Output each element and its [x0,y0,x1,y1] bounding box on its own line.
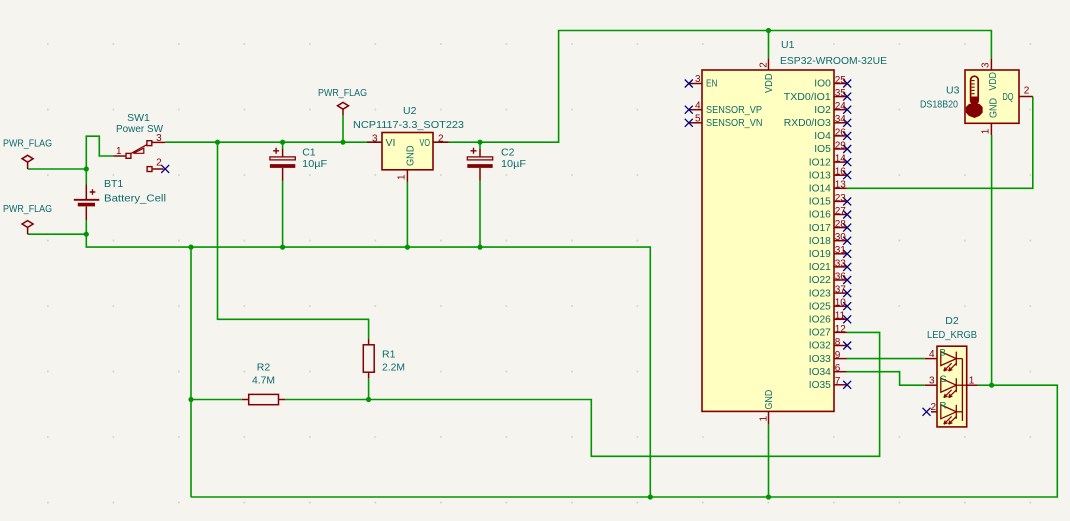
wire flag2 to battery- [28,233,87,235]
U1 pin 9 (IO33) [834,358,847,360]
U1 pin 34 (RXD0/IO3) [834,122,847,124]
wire IO33 to D2 pin4 [847,358,925,360]
svg-text:29: 29 [835,140,847,151]
U1 pin 30 (IO18) [834,240,847,242]
U1 pin 12 (IO27) [834,331,847,333]
U1 pin 3 (EN) [690,83,703,85]
junction VBAT/R1 tap [215,140,220,145]
svg-text:IO18: IO18 [809,236,831,247]
svg-text:VI: VI [386,138,396,149]
svg-text:6: 6 [835,363,841,374]
svg-text:2: 2 [156,158,162,169]
svg-text:IO15: IO15 [809,197,831,208]
wire flag1 to battery+ [28,168,87,170]
svg-text:1: 1 [116,146,122,157]
svg-text:EN: EN [706,79,718,90]
wire bottom GND rail [191,385,1057,497]
junction C2 GND [477,245,482,250]
svg-text:PWR_FLAG: PWR_FLAG [3,203,52,215]
no-connect X U1 IO16 [843,211,851,219]
U1 pin 4 (SENSOR_VP) [690,109,703,111]
D2 LED element B [941,352,963,371]
svg-text:IO27: IO27 [809,328,831,339]
svg-text:10: 10 [835,298,847,309]
svg-text:IO13: IO13 [809,170,831,181]
svg-text:IO14: IO14 [809,184,831,195]
svg-text:4: 4 [695,100,701,111]
junction flag3 [340,140,345,145]
wire VBAT main [165,31,991,143]
capacitor C2 [467,148,492,181]
U1 pin 16 (IO13) [834,174,847,176]
junction C2 top [477,140,482,145]
svg-text:IO22: IO22 [809,275,831,286]
U3 thermometer icon [967,76,982,117]
U1 pin 28 (IO17) [834,227,847,229]
wire VDD drop to U1 [768,31,770,59]
U2 pin 2 (VO) [433,141,449,143]
junction battery+ node [84,166,89,171]
svg-text:23: 23 [835,193,847,204]
wire flag3 stem [342,115,344,142]
no-connect X D2 pin 2 [923,408,931,416]
svg-text:NCP1117-3.3_SOT223: NCP1117-3.3_SOT223 [353,119,464,131]
junction D2/U3 GND node [989,383,994,388]
mcu U1 ESP32 body [702,70,834,411]
junction C1 top [280,140,285,145]
resistor R2 [242,394,285,404]
U1 pin 5 (SENSOR_VN) [690,122,703,124]
U2 pin 3 (VI) [367,141,382,143]
svg-text:10µF: 10µF [501,158,526,170]
svg-text:C1: C1 [302,146,316,158]
U3 pin 2 (DQ) [1019,96,1033,98]
sensor U3 DS18B20 body [965,70,1019,123]
wire C1 top [282,142,284,149]
svg-text:GND: GND [764,390,775,410]
wire U1 GND drop [768,424,770,497]
led D2 body [937,346,967,427]
no-connect X U1 TXD0/IO1 [843,93,851,101]
svg-text:2: 2 [1024,85,1030,96]
wire left GND drop [190,247,192,497]
U1 pin 11 (IO26) [834,318,847,320]
svg-text:3: 3 [372,133,378,144]
D2 LED element R [941,405,963,424]
D2 pin 1 [967,384,978,386]
wire VBAT to R1 [218,142,369,338]
U1 pin 35 (TXD0/IO1) [834,96,847,98]
svg-text:1: 1 [759,416,770,422]
U1 pin 2 (VDD top) [768,58,770,70]
U1 pin 37 (IO23) [834,292,847,294]
svg-text:12: 12 [835,324,847,335]
junction battery- node [84,232,89,237]
no-connect X U1 IO35 [843,381,851,389]
U1 pin 24 (IO2) [834,109,847,111]
svg-text:R1: R1 [382,349,396,361]
no-connect X U1 IO13 [843,171,851,179]
svg-text:36: 36 [835,271,847,282]
U1 pin 14 (IO12) [834,161,847,163]
wire C1 bottom [282,181,284,248]
regulator U2 body [382,133,433,170]
wire U3 GND drop [991,135,993,385]
svg-text:37: 37 [835,285,847,296]
svg-text:Power SW: Power SW [116,123,163,135]
svg-text:IO0: IO0 [814,79,831,90]
wire battery- / GND rail [86,220,650,497]
svg-text:16: 16 [835,167,847,178]
svg-text:VO: VO [420,138,431,149]
D2 pin 3 [925,384,937,386]
svg-text:GND: GND [406,146,417,167]
junction R1/R2 node [366,397,371,402]
svg-text:IO34: IO34 [809,367,831,378]
svg-text:27: 27 [835,206,847,217]
svg-text:VDD: VDD [764,74,775,94]
no-connect X SW1 pin 2 [161,165,169,173]
wire C2 bottom [479,181,481,248]
svg-text:3: 3 [929,375,935,386]
no-connect X U1 IO4 [843,132,851,140]
junction GND bottom 2 [766,494,771,499]
no-connect X U1 SENSOR_VN [685,119,693,127]
no-connect X U1 IO21 [843,263,851,271]
svg-text:IO12: IO12 [809,157,831,168]
svg-text:24: 24 [835,101,847,112]
wire U2 GND [406,182,408,248]
svg-text:5: 5 [695,113,701,124]
power flag PWR_FLAG #3 symbol [338,102,349,115]
U1 pin 25 (IO0) [834,83,847,85]
svg-text:31: 31 [835,245,847,256]
svg-text:SENSOR_VP: SENSOR_VP [706,105,762,116]
U1 pin 33 (IO21) [834,266,847,268]
U1 pin 23 (IO15) [834,200,847,202]
no-connect X U1 IO17 [843,224,851,232]
battery BT1 [74,185,100,221]
no-connect X U1 IO22 [843,276,851,284]
svg-text:IO23: IO23 [809,288,831,299]
U1 pin 31 (IO19) [834,253,847,255]
no-connect X U1 IO5 [843,145,851,153]
svg-text:PWR_FLAG: PWR_FLAG [318,87,367,99]
svg-text:30: 30 [835,232,847,243]
switch SW1 [113,141,165,172]
svg-text:8: 8 [835,337,841,348]
svg-text:U2: U2 [403,105,417,117]
svg-text:4: 4 [929,349,935,360]
svg-text:26: 26 [835,127,847,138]
wire D2 pin1 to node [978,384,992,386]
svg-text:LED_KRGB: LED_KRGB [927,329,977,341]
svg-text:C2: C2 [501,146,515,158]
svg-text:25: 25 [835,75,847,86]
wire R1 bottom [368,378,370,399]
U2 pin 1 (GND) [406,170,408,182]
svg-text:SENSOR_VN: SENSOR_VN [706,118,763,129]
U3 pin 3 (VDD top) [990,58,992,70]
junction C1 GND [280,245,285,250]
resistor R1 [363,339,374,379]
no-connect X U1 IO23 [843,289,851,297]
svg-text:BT1: BT1 [104,178,123,190]
no-connect X U1 RXD0/IO3 [843,119,851,127]
svg-text:3: 3 [981,62,992,68]
wire IO34 to D2 pin3 [847,372,925,386]
no-connect X U1 EN [685,80,693,88]
svg-text:1: 1 [397,174,408,180]
svg-text:35: 35 [835,88,847,99]
no-connect X U1 IO0 [843,80,851,88]
no-connect X U1 IO18 [843,237,851,245]
svg-text:3: 3 [695,74,701,85]
U1 pin 13 (IO14) [834,187,847,189]
no-connect X U1 IO26 [843,315,851,323]
U3 pin 1 (GND bottom) [990,123,992,135]
no-connect X U1 IO32 [843,342,851,350]
svg-text:PWR_FLAG: PWR_FLAG [3,138,52,150]
svg-text:GND: GND [989,98,1000,118]
svg-text:IO25: IO25 [809,301,831,312]
svg-text:1: 1 [981,128,992,134]
wire divider to IO27 [369,332,880,456]
svg-text:RXD0/IO3: RXD0/IO3 [784,118,831,129]
no-connect X U1 IO15 [843,197,851,205]
svg-text:2: 2 [759,62,770,68]
capacitor C1 [270,148,295,181]
U1 pin 26 (IO4) [834,135,847,137]
U1 pin 10 (IO25) [834,305,847,307]
svg-text:28: 28 [835,219,847,230]
D2 pin 4 [925,358,937,360]
svg-text:IO5: IO5 [814,144,831,155]
svg-text:R: R [940,401,947,412]
svg-text:7: 7 [835,376,841,387]
svg-text:2.2M: 2.2M [382,362,405,374]
svg-text:R2: R2 [257,362,271,374]
svg-text:D2: D2 [945,315,959,327]
wire R2 to R1 node [285,399,368,401]
svg-text:Battery_Cell: Battery_Cell [104,193,166,205]
no-connect X U1 IO19 [843,250,851,258]
power flag PWR_FLAG #1 symbol [22,155,33,169]
wire C2 top [479,142,481,149]
svg-text:14: 14 [835,154,847,165]
U1 pin 7 (IO35) [834,384,847,386]
junction GND bottom 1 [648,494,653,499]
U1 pin 6 (IO34) [834,371,847,373]
svg-text:IO32: IO32 [809,341,831,352]
junction U1 VDD [766,28,771,33]
svg-text:U3: U3 [946,84,960,96]
no-connect X U1 SENSOR_VP [685,106,693,114]
svg-text:IO17: IO17 [809,223,831,234]
wire DQ to IO14 [847,97,1033,189]
wire battery top [85,169,87,185]
svg-text:IO16: IO16 [809,210,831,221]
no-connect X U1 IO2 [843,106,851,114]
svg-text:IO4: IO4 [814,131,831,142]
svg-text:G: G [940,374,947,385]
svg-text:U1: U1 [781,39,795,51]
svg-text:B: B [940,347,946,358]
svg-text:TXD0/IO1: TXD0/IO1 [784,92,831,103]
svg-text:VDD: VDD [988,72,999,91]
U1 pin 29 (IO5) [834,148,847,150]
junction R2 left node [188,397,193,402]
svg-text:IO21: IO21 [809,262,831,273]
D2 pin 2 [931,411,937,413]
wire battery+ to SW1 pin1 [86,136,113,169]
svg-text:34: 34 [835,114,847,125]
svg-text:IO35: IO35 [809,380,831,391]
svg-text:1: 1 [969,375,975,386]
svg-text:ESP32-WROOM-32UE: ESP32-WROOM-32UE [780,55,887,67]
junction GND rail left [188,245,193,250]
svg-text:9: 9 [835,350,841,361]
U1 pin 27 (IO16) [834,214,847,216]
svg-text:4.7M: 4.7M [252,375,275,387]
power flag PWR_FLAG #2 symbol [22,221,33,235]
svg-text:2: 2 [930,402,936,413]
svg-text:13: 13 [835,180,847,191]
wire R2 left [191,399,242,401]
svg-text:IO26: IO26 [809,315,831,326]
svg-text:11: 11 [835,311,846,322]
no-connect X U1 IO12 [843,158,851,166]
svg-text:10µF: 10µF [302,158,327,170]
D2 internal common cathode bus [962,359,966,421]
svg-text:IO2: IO2 [814,105,831,116]
svg-text:33: 33 [835,258,847,269]
U1 pin 8 (IO32) [834,345,847,347]
no-connect X U1 IO25 [843,302,851,310]
svg-text:DQ: DQ [1003,92,1014,103]
svg-text:SW1: SW1 [127,112,150,124]
junction U2 GND [405,245,410,250]
U1 pin 36 (IO22) [834,279,847,281]
svg-text:IO19: IO19 [809,249,831,260]
svg-text:IO33: IO33 [809,354,831,365]
U1 pin 1 (GND bottom) [768,411,770,424]
D2 LED element G [941,378,963,397]
svg-text:2: 2 [438,133,444,144]
svg-text:DS18B20: DS18B20 [920,99,958,111]
